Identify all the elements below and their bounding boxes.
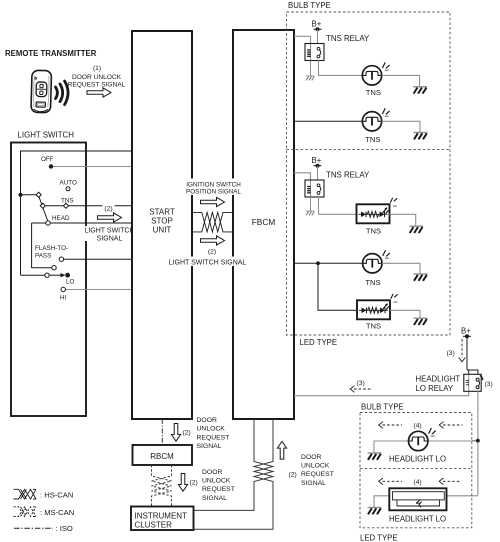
legend MS-CAN symbol (14, 507, 37, 517)
ground TNS bulb 1 (413, 87, 427, 94)
wire TNS bulb 1 to ground (382, 75, 420, 86)
TNS relay 2 (305, 180, 324, 197)
dashed arrow (4) bulb left-1 (379, 422, 402, 429)
svg-text:B+: B+ (461, 327, 471, 336)
wire HI contact to start stop unit (65, 289, 132, 291)
twisted pair FBCM to instrument cluster (194, 419, 274, 529)
svg-text:BULB TYPE: BULB TYPE (361, 403, 404, 412)
svg-text:(2): (2) (208, 249, 216, 256)
svg-text:TNS RELAY: TNS RELAY (326, 34, 370, 43)
contact arm diamond TNS row (40, 203, 45, 208)
svg-text:BULB TYPE: BULB TYPE (288, 1, 331, 10)
start stop unit box (132, 31, 192, 419)
wire ISO start stop unit to RBCM (161, 419, 163, 445)
wire FBCM to TNS bulb 3 (294, 262, 362, 264)
svg-text:STOP: STOP (151, 217, 173, 226)
svg-text:(4): (4) (413, 423, 421, 430)
junction bus-arm (18, 193, 22, 197)
wire OFF contact to start stop unit (51, 166, 132, 168)
legend ISO symbol (14, 527, 53, 529)
svg-text:DOOR UNLOCK: DOOR UNLOCK (72, 74, 122, 81)
remote transmitter signal waves (56, 81, 69, 105)
label LIGHT SWITCH SIGNAL (left) (84, 226, 135, 243)
wire TNS relay 1 coil to ground (310, 61, 312, 76)
wire bus to switch arm pivot (21, 194, 38, 196)
ground LED TNS 1 (409, 226, 423, 233)
dashed arrow (3) down (459, 339, 466, 362)
B+ terminal TNS relay 1 (314, 27, 322, 31)
svg-text:FBCM: FBCM (252, 217, 276, 227)
svg-text:TNS: TNS (366, 88, 381, 97)
arrow light switch signal to FBCM (201, 236, 225, 245)
instrument cluster box (131, 507, 194, 531)
svg-text:(3): (3) (485, 381, 493, 388)
TNS bulb 2 (362, 108, 389, 131)
svg-text:UNIT: UNIT (153, 226, 172, 235)
wire TNS relay 1 switch to TNS bulb 1 (319, 61, 363, 76)
svg-text:UNLOCK: UNLOCK (202, 478, 231, 485)
svg-text:B+: B+ (312, 20, 322, 29)
dashed arrow (4) bulb left-2 (439, 422, 462, 429)
svg-text:OFF: OFF (41, 156, 54, 163)
MS-CAN twisted pair RBCM to instrument cluster (152, 465, 172, 507)
svg-text:DOOR: DOOR (301, 454, 321, 461)
contact HEAD (46, 221, 50, 225)
wire LO arm with arrow (49, 273, 65, 278)
junction headlight vertical (476, 439, 480, 443)
svg-text:(3): (3) (447, 350, 455, 357)
ground TNS relay 2 coil (306, 211, 315, 215)
junction bulb3 branch (316, 261, 320, 265)
wire bus to LO contact (21, 274, 45, 276)
svg-text:TNS: TNS (366, 322, 381, 331)
ground TNS bulb 3 (414, 274, 428, 281)
ground TNS bulb 2 (414, 133, 428, 140)
wire common bus top to start stop unit (21, 151, 133, 275)
RBCM box (133, 445, 193, 465)
contact HI (61, 287, 65, 291)
arrow door unlock request to cluster (178, 474, 187, 492)
label FLASH-TO-PASS (35, 245, 68, 260)
wire FLASH-TO-PASS contact to start stop unit (64, 258, 133, 260)
svg-text:LIGHT SWITCH: LIGHT SWITCH (18, 131, 75, 140)
label door unlock request signal (RBCM) (197, 417, 230, 450)
svg-text:RBCM: RBCM (150, 452, 174, 461)
contact AUTO (66, 187, 70, 191)
svg-text:(2): (2) (183, 430, 191, 437)
headlight lo LED module (389, 488, 446, 510)
wire FBCM to TNS bulb 2 (294, 120, 362, 122)
LED TNS module 2 (357, 294, 398, 320)
LED TNS module 1 (357, 198, 398, 224)
svg-text:IGNITION SWITCH: IGNITION SWITCH (186, 182, 241, 189)
wire TNS contact to start stop unit (45, 205, 132, 207)
svg-text:HEADLIGHT LO: HEADLIGHT LO (389, 515, 446, 524)
svg-text:: ISO: : ISO (56, 524, 73, 533)
wire branch to LED TNS 2 (318, 263, 357, 310)
headlight lo relay (464, 374, 483, 391)
svg-text:REMOTE TRANSMITTER: REMOTE TRANSMITTER (5, 49, 97, 58)
svg-text:REQUEST: REQUEST (301, 471, 334, 478)
switch arm (39, 196, 48, 221)
TNS bulb 3 (363, 250, 390, 273)
svg-text:CLUSTER: CLUSTER (135, 521, 173, 530)
label door unlock request signal (FBCM) (301, 454, 334, 487)
svg-text:LIGHT SWITCH: LIGHT SWITCH (84, 228, 134, 235)
label ignition switch position signal (185, 179, 243, 196)
wire headlight bulb to ground (374, 441, 409, 453)
svg-text:TNS: TNS (365, 135, 380, 144)
svg-text:SIGNAL: SIGNAL (97, 236, 123, 243)
label LIGHT SWITCH SIGNAL (middle) (169, 257, 247, 267)
contact OFF (closed dot) (49, 164, 53, 168)
wire TNS bulb 3 to ground (382, 263, 420, 274)
svg-text:(2): (2) (289, 472, 297, 479)
svg-text:HI: HI (60, 295, 67, 302)
contact pivot diamond (36, 192, 41, 197)
svg-text:SIGNAL: SIGNAL (301, 480, 326, 487)
svg-text:DOOR: DOOR (202, 469, 222, 476)
arrow door unlock request to RBCM (171, 424, 180, 442)
svg-text:LIGHT SWITCH SIGNAL: LIGHT SWITCH SIGNAL (169, 260, 247, 267)
svg-text:REQUEST: REQUEST (202, 486, 235, 493)
headlight lo bulb (409, 428, 436, 451)
svg-text:DOOR: DOOR (197, 417, 217, 424)
svg-text:REQUEST SIGNAL: REQUEST SIGNAL (68, 82, 126, 89)
wire LED TNS 1 to ground (390, 214, 416, 226)
wire TNS relay 2 coil to ground (310, 197, 312, 211)
wire junction to headlight bulb (428, 440, 478, 442)
label START STOP UNIT (149, 208, 175, 235)
ground headlight bulb (368, 453, 382, 460)
svg-text:LED TYPE: LED TYPE (360, 534, 398, 542)
svg-text:HEAD: HEAD (52, 215, 70, 222)
label (2) light switch signal (103, 204, 115, 213)
svg-text:(2): (2) (104, 206, 112, 213)
svg-text:SIGNAL: SIGNAL (202, 495, 227, 502)
wire HEAD branch down to flash contact (32, 223, 52, 268)
svg-text:HEADLIGHT: HEADLIGHT (416, 375, 461, 384)
contact flash lower (52, 266, 56, 270)
label INSTRUMENT CLUSTER (135, 511, 188, 529)
label HEADLIGHT LO RELAY (416, 375, 461, 394)
svg-text:LED TYPE: LED TYPE (300, 338, 338, 347)
svg-text:B+: B+ (312, 156, 322, 165)
arrow door unlock request signal (1) (87, 88, 111, 97)
wire B+ to headlight lo relay (467, 336, 478, 374)
svg-text:(3): (3) (357, 380, 365, 387)
ground headlight led (368, 508, 382, 515)
dashed arrow (3) left (350, 386, 372, 393)
ground LED TNS 2 (414, 318, 428, 325)
svg-text:: HS-CAN: : HS-CAN (40, 491, 73, 500)
svg-text:UNLOCK: UNLOCK (197, 426, 226, 433)
wire FBCM to TNS relay 2 coil (294, 173, 311, 180)
ground TNS relay 1 coil (306, 76, 315, 80)
contact LO (closed dot) (65, 273, 70, 278)
arrow light switch signal (98, 213, 122, 222)
wire B+ to TNS relay 2 switch (318, 166, 319, 184)
svg-text:PASS: PASS (35, 253, 51, 260)
wire LED TNS 2 to ground (390, 310, 420, 318)
svg-text:START: START (149, 208, 175, 217)
wire TNS bulb 2 to ground (382, 121, 420, 132)
wire headlight led right (447, 495, 478, 497)
svg-text:SIGNAL: SIGNAL (197, 443, 222, 450)
wire TNS relay 2 switch to LED TNS 1 (319, 197, 357, 214)
contact TNS diamond (63, 203, 68, 208)
wire HEAD line to start stop unit (32, 222, 132, 224)
svg-text:TNS: TNS (366, 227, 381, 236)
svg-text:UNLOCK: UNLOCK (301, 463, 330, 470)
arrow ignition switch position signal (201, 197, 225, 206)
svg-text:(2): (2) (190, 480, 198, 487)
dashed box bulb/led type (bottom right) (360, 413, 472, 528)
dashed arrow (4) led left-1 (379, 478, 402, 485)
svg-text:(1): (1) (93, 65, 101, 72)
wire FBCM to TNS relay 1 coil (294, 36, 311, 43)
svg-text:HEADLIGHT LO: HEADLIGHT LO (389, 455, 446, 464)
FBCM box (233, 30, 294, 419)
dashed box bulb/led type (top right) (287, 12, 451, 335)
svg-text:AUTO: AUTO (60, 180, 77, 187)
contact LO arm (45, 273, 49, 277)
arrow door unlock request from cluster to FBCM (277, 441, 286, 459)
wire FBCM to headlight lo relay coil (294, 391, 469, 395)
wire headlight led to ground (374, 496, 389, 508)
dashed arrow (4) led left-2 (439, 478, 461, 485)
svg-text:FLASH-TO-: FLASH-TO- (35, 245, 68, 252)
B+ terminal TNS relay 2 (314, 164, 322, 168)
remote transmitter key fob (31, 70, 52, 112)
label door unlock request signal (cluster) (202, 469, 235, 502)
svg-text:LO: LO (66, 279, 75, 286)
svg-text:TNS RELAY: TNS RELAY (326, 171, 370, 180)
light switch box (11, 143, 86, 417)
label (1) door unlock request signal (68, 65, 126, 89)
svg-text:REQUEST: REQUEST (197, 434, 230, 441)
svg-text:TNS: TNS (365, 278, 380, 287)
TNS relay 1 (305, 44, 324, 61)
wire headlight lo relay switch down (472, 391, 478, 495)
B+ terminal headlight (463, 334, 471, 338)
contact flash upper (59, 257, 63, 261)
svg-text:: MS-CAN: : MS-CAN (40, 508, 74, 517)
HS-CAN twisted pair start stop unit to FBCM (192, 212, 233, 232)
svg-text:POSITION SIGNAL: POSITION SIGNAL (186, 189, 241, 196)
svg-text:INSTRUMENT: INSTRUMENT (135, 511, 188, 520)
TNS bulb 1 (362, 62, 389, 85)
legend HS-CAN symbol (14, 489, 37, 499)
wire B+ to TNS relay 1 switch (318, 29, 319, 48)
svg-text:TNS: TNS (61, 198, 74, 205)
svg-text:LO RELAY: LO RELAY (416, 384, 454, 393)
svg-text:(4): (4) (413, 479, 421, 486)
